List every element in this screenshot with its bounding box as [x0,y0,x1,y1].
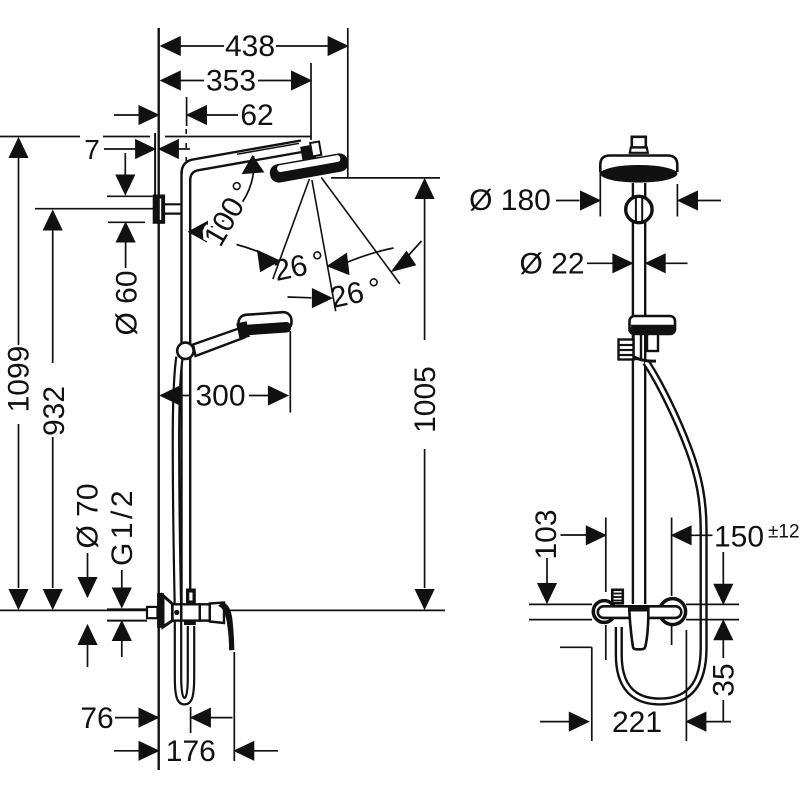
dim 35 [714,620,733,640]
riser pipe (left view) [182,141,302,175]
svg-text:62: 62 [240,99,273,132]
extension line 62 / pipe axis (dashed) [186,97,188,126]
spray lines [273,179,310,279]
26 deg #2 [288,296,312,299]
top reference line y=136.5 [0,136,80,138]
svg-text:35: 35 [707,663,740,696]
svg-text:±12: ±12 [768,522,800,543]
head swivel joint [300,141,322,163]
D60 extension lines [107,195,153,197]
svg-text:G1/2: G1/2 [106,487,139,566]
svg-text:Ø 70: Ø 70 [71,483,104,548]
svg-text:76: 76 [80,702,113,735]
dim 932 line [52,212,54,363]
dim 300 [160,386,180,405]
dim 150 +/-12 [605,518,607,593]
svg-text:300: 300 [195,380,245,413]
D180 extension lines [599,172,601,217]
dim 221 [560,646,592,648]
svg-text:Ø 22: Ø 22 [519,248,584,281]
hand shower (left view) [193,328,245,357]
svg-text:176: 176 [166,735,216,768]
slider clamp knob [619,340,634,360]
mixer lever (left view) [219,603,234,650]
ref line y=208.7 (bracket centerline) [35,208,154,210]
mixer body (left view) [181,604,200,620]
bracket stem [165,203,182,205]
dim 438 [161,37,181,56]
svg-text:353: 353 [206,65,256,98]
mixer pivot [173,604,182,620]
supply stub in wall [107,608,147,610]
wall line (left view) [157,28,159,770]
diverter knob (left view) [187,589,196,604]
diverter knob (right view) [612,590,623,604]
shower face (black ellipse) [600,165,677,183]
riser pipe (right view) [632,183,634,604]
dim 1005 [331,177,440,179]
mixer (right view) [593,601,615,623]
extension line 438 [347,28,349,177]
hand shower (right view) [630,316,676,334]
ref line mixer centre y=604.4 [529,603,592,605]
wall plate (bracket) [153,195,164,223]
svg-text:7: 7 [84,134,100,165]
dim 62 [114,114,139,116]
arm inner line [237,143,299,154]
ref line outlet y=619.6 [529,619,592,621]
hand shower holder + hose (left view) [176,357,191,701]
dim 1099 line [18,140,20,345]
dim D60 [124,153,126,176]
svg-text:Ø 180: Ø 180 [469,184,551,217]
extension line 353 [310,63,312,140]
svg-text:221: 221 [612,706,662,739]
dim 176 [114,750,139,752]
overhead shower (left view, tilted disc) [269,153,349,184]
bottom reference line y=610.4 [0,609,445,611]
svg-text:103: 103 [530,509,563,559]
100 deg arc [189,156,254,232]
26 deg #1 [237,245,278,261]
svg-text:438: 438 [225,30,275,63]
dim 353 [161,71,181,90]
svg-text:932: 932 [38,386,71,436]
mixer escutcheon (left view) [158,594,164,628]
svg-text:1005: 1005 [409,366,442,433]
svg-text:Ø 60: Ø 60 [111,270,144,335]
outlet under body [185,621,196,625]
top stem [632,137,646,148]
overhead shower dome (right view) [600,156,677,173]
mixer lever (right view) [629,607,648,649]
svg-text:150: 150 [714,521,764,554]
svg-text:1099: 1099 [3,346,36,413]
ball joint ring [626,196,652,222]
hose (right view) [619,362,704,702]
wall offset line (7 mm gap) [154,133,156,196]
